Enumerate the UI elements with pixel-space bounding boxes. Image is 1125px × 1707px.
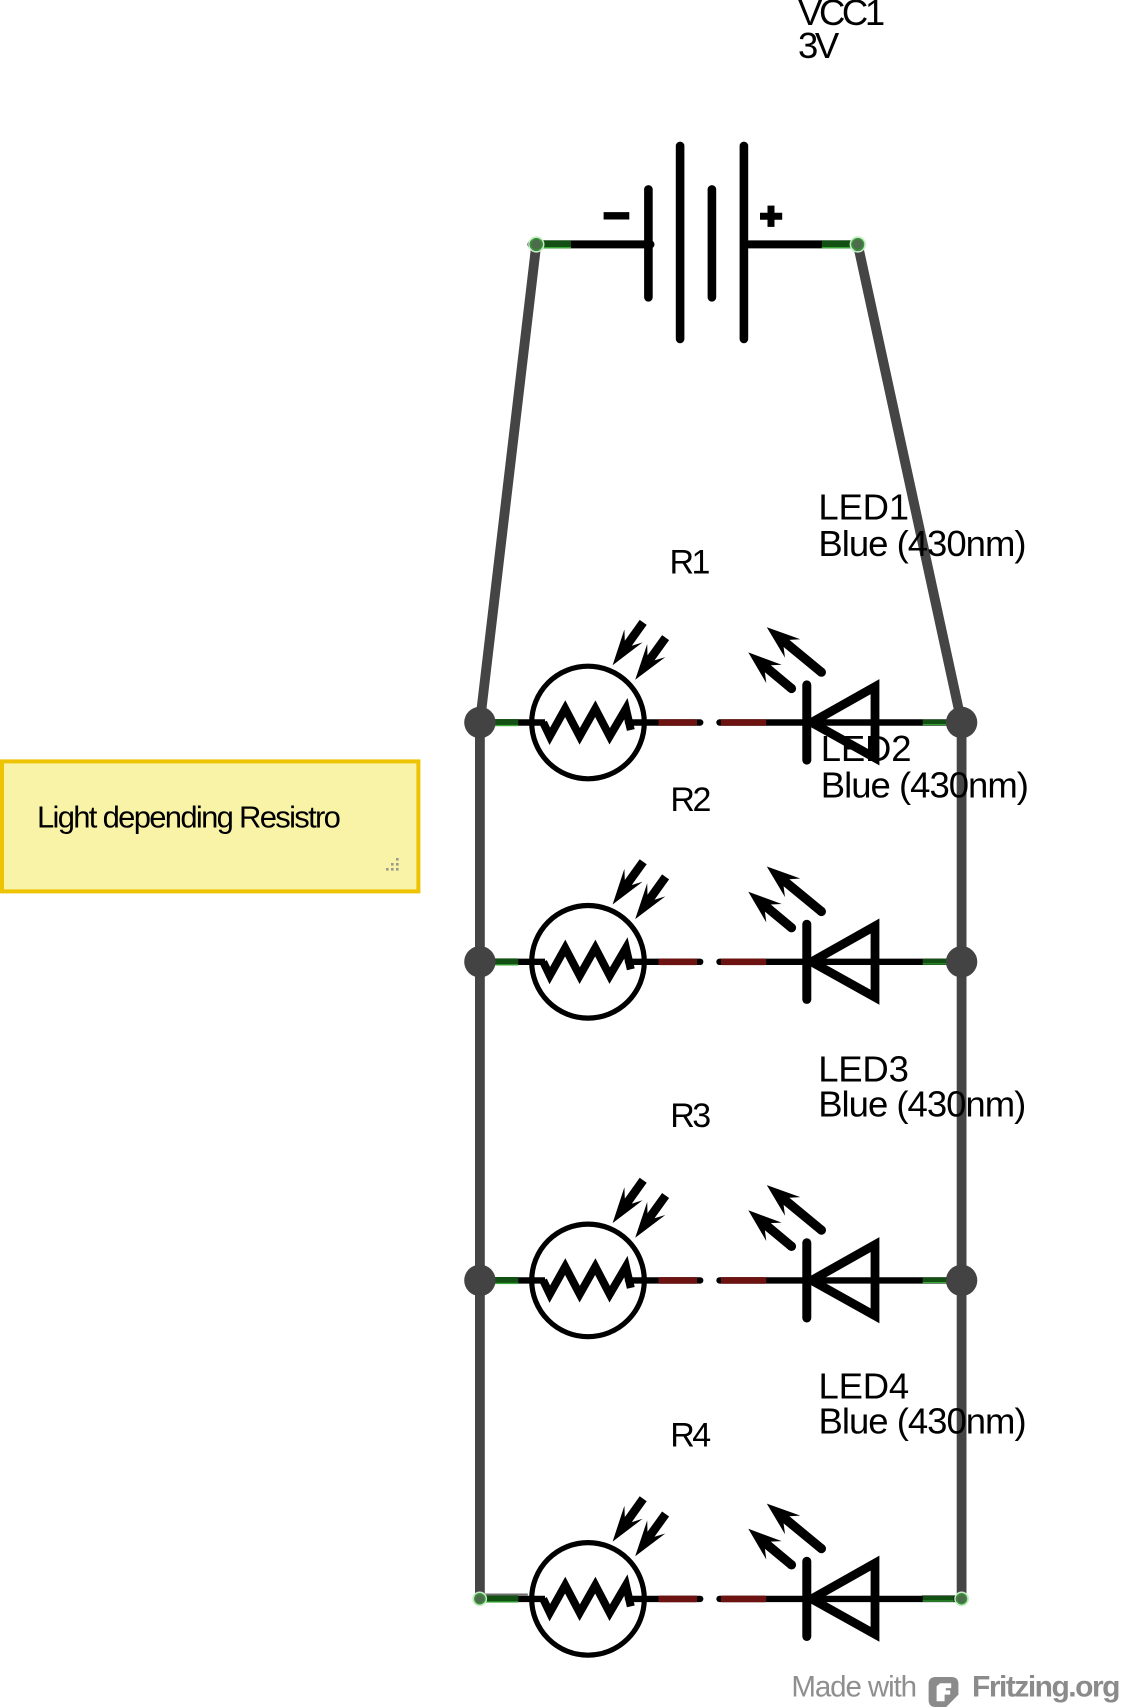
label LED3 Blue (430nm) <box>818 1049 1025 1125</box>
LED4 body (cathode bar + triangle) <box>807 1561 875 1636</box>
footer "Fritzing.org" text <box>972 1671 1119 1704</box>
battery VCC1 wire right <box>745 240 858 248</box>
LED3 lead left <box>720 1277 957 1284</box>
battery minus sign <box>604 212 630 219</box>
label LED4 Blue (430nm) <box>819 1366 1026 1442</box>
svg-text:Blue (430nm): Blue (430nm) <box>818 1084 1025 1125</box>
resistor R4 light arrows <box>613 1496 670 1556</box>
svg-text:Blue (430nm): Blue (430nm) <box>821 765 1028 806</box>
resistor R1 lead right <box>628 719 700 726</box>
node right row2 <box>946 946 977 977</box>
LED4 lead left <box>720 1596 957 1603</box>
LED1 body (cathode bar + triangle) <box>807 685 875 760</box>
LED2 lead left <box>720 959 957 966</box>
node right row1 <box>946 707 977 738</box>
label LED1 Blue (430nm) <box>818 487 1025 564</box>
svg-text:R4: R4 <box>670 1417 710 1455</box>
LED2 body (cathode bar + triangle) <box>807 924 875 999</box>
svg-text:LED1: LED1 <box>818 487 909 528</box>
LED4 light arrows <box>748 1504 826 1570</box>
LED1 green terminal segment <box>923 720 954 726</box>
wire right bus <box>957 723 967 1597</box>
node left row3 <box>464 1265 495 1296</box>
svg-text:3V: 3V <box>798 25 840 66</box>
node left row1 <box>464 707 495 738</box>
resistor R3 light arrows <box>613 1178 670 1238</box>
label R4 <box>670 1417 710 1455</box>
svg-text:Made with: Made with <box>791 1671 916 1704</box>
resistor R2 (LDR) lead left <box>480 958 545 965</box>
LED2 light arrows <box>748 867 826 933</box>
battery right terminal dot <box>850 237 865 252</box>
svg-text:Fritzing.org: Fritzing.org <box>972 1671 1119 1704</box>
LED2 green terminal segment <box>923 959 954 965</box>
resistor R2 light arrows <box>613 859 670 919</box>
label R2 <box>670 781 710 819</box>
LED3 body (cathode bar + triangle) <box>807 1243 875 1318</box>
svg-text:R3: R3 <box>670 1097 710 1135</box>
row4 left terminal dot <box>473 1592 486 1605</box>
LED4 green terminal segment <box>923 1596 954 1602</box>
LED3 green terminal segment <box>923 1277 954 1283</box>
resistor R2 lead right <box>628 959 700 966</box>
wire battery-left to node row1 <box>480 244 536 722</box>
note box "Light depending Resistro" <box>2 761 418 891</box>
svg-text:Blue (430nm): Blue (430nm) <box>819 1401 1026 1442</box>
LED1 light arrows <box>748 627 826 693</box>
svg-text:Light depending Resistro: Light depending Resistro <box>37 799 340 834</box>
node right row3 <box>946 1265 977 1296</box>
resistor R4 (LDR) lead left <box>480 1596 545 1603</box>
resistor R3 (LDR) body <box>532 1224 645 1337</box>
resistor R4 (LDR) body <box>532 1543 645 1656</box>
svg-text:LED2: LED2 <box>821 728 912 769</box>
resistor R2 (LDR) body <box>532 906 645 1019</box>
label VCC1 3V <box>798 0 884 66</box>
resistor R4 lead right <box>628 1596 700 1603</box>
svg-text:R1: R1 <box>670 544 710 582</box>
label R1 <box>670 544 710 582</box>
svg-text:R2: R2 <box>670 781 710 819</box>
battery plus sign <box>760 206 782 227</box>
LED3 light arrows <box>748 1185 826 1251</box>
resistor R1 (LDR) lead left <box>480 719 545 726</box>
svg-text:Blue (430nm): Blue (430nm) <box>818 523 1025 564</box>
wire row4 right stub <box>922 1595 962 1597</box>
battery VCC1 plates <box>648 146 744 339</box>
wire left bus <box>475 723 485 1597</box>
wire row4 left stub <box>480 1594 528 1596</box>
resistor R3 (LDR) lead left <box>480 1277 545 1284</box>
row4 right terminal dot <box>955 1592 968 1605</box>
label LED2 Blue (430nm) <box>821 728 1028 805</box>
label R3 <box>670 1097 710 1135</box>
battery left terminal dot <box>529 237 544 252</box>
resistor R1 (LDR) body <box>532 666 645 779</box>
battery VCC1 wire left <box>532 240 651 248</box>
LED1 lead left <box>720 719 957 726</box>
wire battery-right to node row1 right <box>858 244 962 722</box>
footer "Made with" text <box>791 1671 916 1704</box>
resistor R3 lead right <box>628 1277 700 1284</box>
Fritzing logo <box>929 1677 959 1707</box>
node left row2 <box>464 946 495 977</box>
resistor R1 light arrows <box>613 620 670 680</box>
